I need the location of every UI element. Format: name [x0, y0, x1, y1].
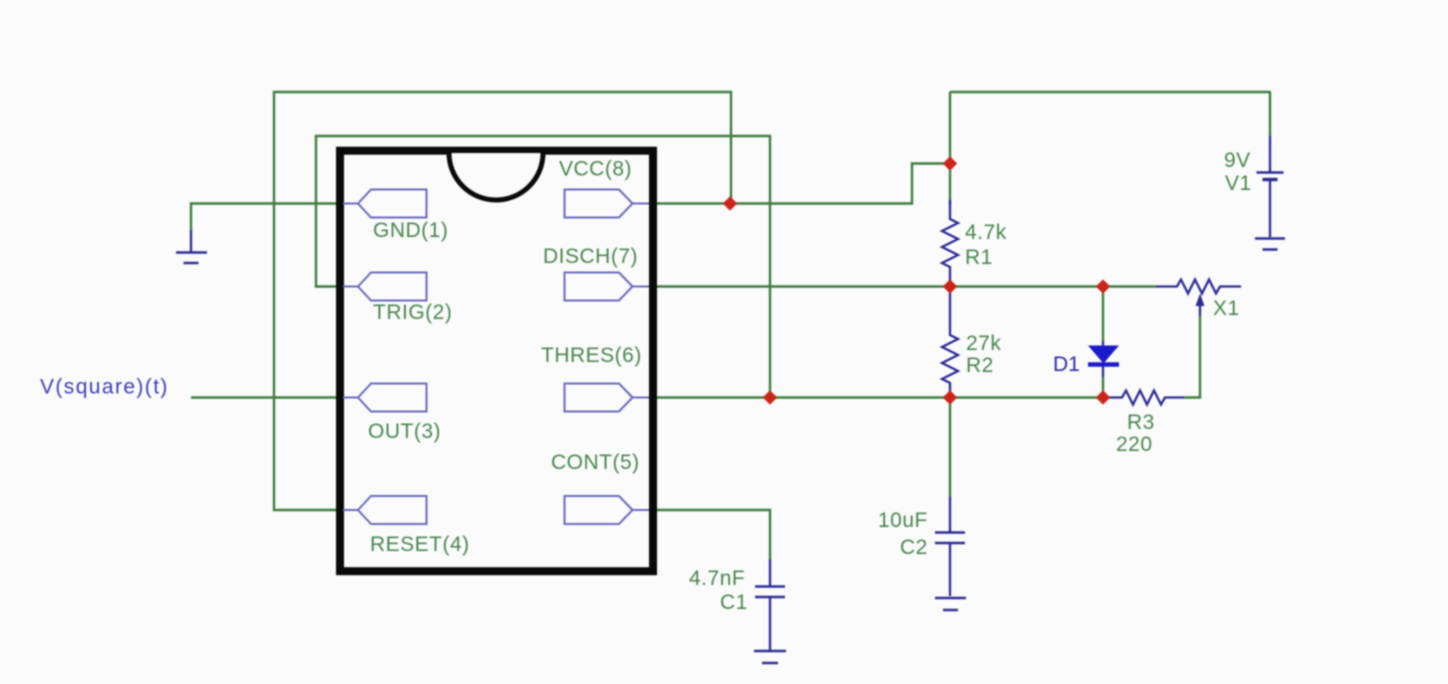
- svg-text:R3: R3: [1127, 411, 1155, 434]
- svg-text:RESET(4): RESET(4): [370, 533, 470, 556]
- svg-text:TRIG(2): TRIG(2): [373, 301, 452, 324]
- svg-text:VCC(8): VCC(8): [559, 158, 632, 181]
- svg-text:DISCH(7): DISCH(7): [543, 245, 638, 268]
- svg-text:4.7k: 4.7k: [965, 221, 1007, 244]
- svg-text:CONT(5): CONT(5): [551, 451, 640, 474]
- svg-text:C1: C1: [720, 591, 748, 614]
- svg-text:220: 220: [1116, 433, 1153, 456]
- svg-text:V(square)(t): V(square)(t): [40, 376, 169, 399]
- svg-text:27k: 27k: [966, 332, 1001, 355]
- svg-text:9V: 9V: [1224, 149, 1251, 172]
- svg-text:V1: V1: [1225, 172, 1252, 195]
- svg-text:4.7nF: 4.7nF: [689, 567, 745, 590]
- svg-text:R1: R1: [965, 246, 993, 269]
- svg-text:X1: X1: [1213, 297, 1240, 320]
- svg-text:10uF: 10uF: [878, 509, 928, 532]
- svg-text:OUT(3): OUT(3): [368, 420, 441, 443]
- svg-text:R2: R2: [966, 354, 994, 377]
- svg-text:C2: C2: [900, 536, 928, 559]
- svg-text:THRES(6): THRES(6): [541, 344, 642, 367]
- svg-text:D1: D1: [1053, 353, 1080, 376]
- svg-text:GND(1): GND(1): [373, 219, 448, 242]
